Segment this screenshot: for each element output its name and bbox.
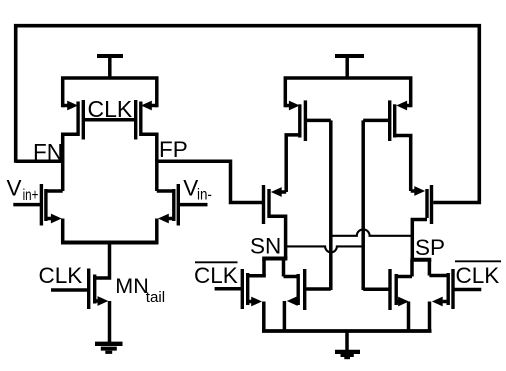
nmos M1 (Vin+ input)	[13, 184, 62, 243]
svg-text:in-: in-	[197, 187, 212, 204]
wire SN drain bar	[262, 257, 287, 261]
svg-text:tail: tail	[146, 289, 165, 306]
svg-text:CLK: CLK	[88, 96, 133, 122]
nmos M2 (Vin- input)	[157, 184, 208, 243]
wire VDD rail stage 1	[63, 78, 157, 107]
pmos M4 (right clock pmos, stage 1)	[136, 100, 157, 161]
wire tail stem	[95, 243, 110, 279]
wire gate strap CLK pmos pair	[83, 118, 135, 122]
wire ground rail stage 2	[262, 329, 432, 333]
wire cross-couple line B (right gates to SN)	[361, 120, 365, 290]
nmos MNtail	[51, 269, 110, 344]
wire SN cross link (thin, hops over line A)	[286, 246, 364, 252]
svg-text:CLK: CLK	[39, 263, 83, 288]
ground symbol stage 2	[335, 331, 360, 358]
nmos M11 (right latch nmos, gate to line B)	[363, 260, 412, 332]
pmos M5 (left latch pmos)	[285, 100, 331, 192]
wire VDD rail stage 2	[285, 78, 410, 107]
wire FP column	[155, 159, 159, 191]
nmos M12 (right clkb switch)	[429, 260, 481, 332]
pmos M3 (left clock pmos, stage 1)	[63, 100, 84, 161]
wire FN node	[16, 159, 63, 163]
svg-text:MN: MN	[115, 274, 148, 298]
svg-text:SP: SP	[415, 235, 445, 260]
VDD supply symbol stage 1	[97, 56, 123, 80]
wire SP cross link (thin, hops over line B)	[331, 229, 413, 235]
label CLKbar left	[194, 262, 238, 288]
svg-text:in+: in+	[23, 187, 39, 204]
pmos M6 (right latch pmos)	[363, 100, 411, 191]
nmos M9 (left clkb switch)	[215, 259, 266, 333]
svg-text:FP: FP	[159, 137, 188, 162]
label CLKbar right	[455, 261, 501, 288]
svg-text:CLK: CLK	[456, 263, 500, 288]
ground symbol stage 1	[95, 344, 123, 353]
svg-text:SN: SN	[250, 234, 281, 259]
wire SP drain bar	[410, 258, 431, 262]
wire cross-couple line A (left gates to SP)	[329, 120, 333, 290]
nmos M10 (left latch nmos, gate to line A)	[284, 259, 331, 333]
svg-text:V: V	[7, 176, 22, 201]
wire FN column (pmos drain to nmos drain)	[61, 159, 65, 191]
VDD supply symbol stage 2	[335, 56, 364, 80]
pmos M8 (stage 2 right input, gate from FN)	[411, 185, 432, 260]
wire FP node to stage 2 left input gate	[157, 161, 264, 202]
pmos M7 (stage 2 left input, gate from FP)	[264, 185, 287, 259]
svg-text:CLK: CLK	[194, 263, 238, 288]
wire tail bus	[61, 241, 159, 245]
wire outer feedback loop FN to M8 gate	[16, 26, 480, 203]
